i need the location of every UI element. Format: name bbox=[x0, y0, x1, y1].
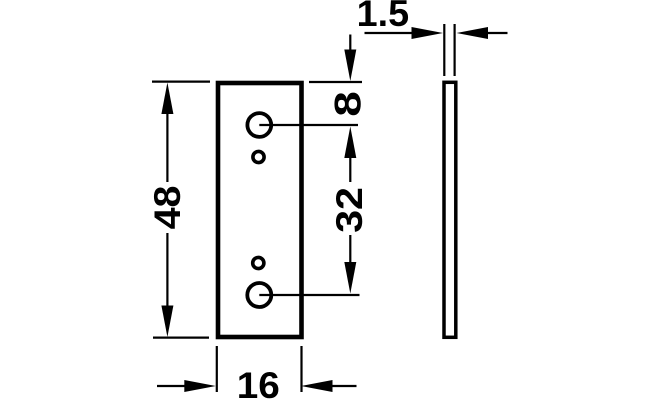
dim 1.5 right tail bbox=[484, 32, 508, 34]
svg-text:16: 16 bbox=[237, 366, 280, 400]
svg-text:8: 8 bbox=[327, 91, 369, 117]
dim 1.5 arrow pointing left bbox=[457, 27, 489, 39]
hole H1 top large bbox=[247, 113, 271, 137]
dim 16 arrow left pointing right bbox=[184, 380, 216, 392]
front view plate outline bbox=[218, 83, 302, 337]
hole H4 bottom large bbox=[247, 283, 271, 307]
side view plate outline bbox=[444, 82, 456, 337]
dim 16 right tail bbox=[330, 385, 357, 387]
dim 48 arrow down bbox=[161, 306, 173, 338]
dim 48 line lower segment bbox=[166, 233, 168, 310]
dim 32 line lower segment bbox=[349, 235, 351, 266]
plate top edge extension line right bbox=[309, 81, 362, 83]
dim 48 top extension line bbox=[152, 80, 210, 82]
dim 16 arrow right pointing left bbox=[301, 380, 333, 392]
leader line from hole H4 center bbox=[259, 294, 359, 296]
dim 16 left extension line bbox=[216, 346, 218, 392]
svg-text:1.5: 1.5 bbox=[357, 0, 409, 34]
hole H2 top small bbox=[253, 151, 264, 162]
dim 48 line upper segment bbox=[166, 110, 168, 182]
hole H3 bottom small bbox=[253, 257, 264, 268]
dim 16 left tail bbox=[157, 385, 188, 387]
dim 32 line upper segment bbox=[349, 154, 351, 182]
dim 1.5 right extension line bbox=[454, 24, 456, 76]
dim 1.5 left tail bbox=[365, 32, 417, 34]
dim 48 bottom extension line bbox=[153, 337, 209, 339]
leader line from hole H1 center bbox=[259, 124, 358, 126]
svg-text:32: 32 bbox=[330, 187, 371, 233]
svg-text:48: 48 bbox=[147, 186, 189, 230]
dim 32 arrow down bbox=[344, 262, 356, 294]
dim 48 arrow up bbox=[161, 83, 173, 115]
dim 1.5 left extension line bbox=[443, 24, 445, 76]
dim 16 right extension line bbox=[300, 346, 302, 392]
dim 32 arrow up bbox=[344, 127, 356, 159]
dim 8 arrow down (outside above) bbox=[344, 50, 356, 82]
dim 1.5 arrow pointing right bbox=[412, 27, 444, 39]
dim 8 tail above bbox=[349, 35, 351, 56]
